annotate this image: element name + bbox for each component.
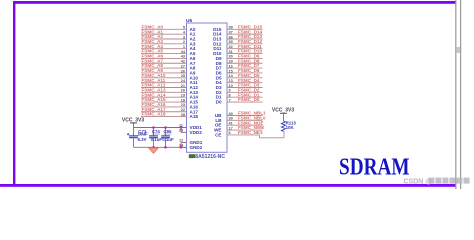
svg-text:CE: CE (215, 132, 221, 137)
junction dot (152, 146, 155, 149)
wire net FSMC_D1 (227, 96, 263, 98)
wire net FSMC_D6 (227, 72, 263, 74)
svg-text:42: 42 (181, 60, 185, 64)
sheet edge line 2 (460, 0, 461, 189)
wire net FSMC_D4 (227, 82, 263, 84)
svg-text:9: 9 (229, 89, 231, 93)
polarity mark C73 (127, 133, 129, 135)
svg-text:23: 23 (181, 103, 185, 107)
border frame top (13, 1, 456, 4)
svg-text:0.1uF: 0.1uF (162, 137, 174, 142)
junction dot (152, 126, 155, 129)
wire VDD vertical join (180, 128, 182, 133)
wire net FSMC_D13 (227, 38, 263, 40)
svg-text:8: 8 (229, 94, 231, 98)
wire net FSMC_D12 (227, 43, 263, 45)
power bar right (280, 112, 287, 114)
svg-text:31: 31 (229, 50, 233, 54)
svg-text:19: 19 (181, 94, 185, 98)
watermark glyph (450, 178, 456, 184)
wire GND1 stub (181, 141, 187, 143)
svg-text:36: 36 (229, 35, 233, 39)
wire VDD2 stub (181, 131, 187, 133)
svg-text:26: 26 (181, 69, 185, 73)
IC U6 SRAM body (187, 23, 228, 152)
svg-text:20: 20 (181, 89, 185, 93)
svg-text:1: 1 (183, 45, 185, 49)
svg-text:C86: C86 (163, 129, 172, 134)
wire net FSMC_NBL0 (227, 119, 263, 121)
svg-text:10K: 10K (286, 125, 295, 130)
svg-text:C74: C74 (152, 129, 161, 134)
wire net FSMC_A8 (141, 67, 187, 69)
svg-text:37: 37 (229, 30, 233, 34)
svg-text:A18: A18 (190, 114, 199, 119)
wire net FSMC_D15 (227, 28, 263, 30)
svg-text:VCC_3V3: VCC_3V3 (272, 108, 294, 114)
wire net FSMC_A17 (141, 111, 187, 113)
wire net FSMC_D11 (227, 48, 263, 50)
sheet edge line 1 (455, 0, 456, 189)
svg-text:21: 21 (181, 84, 185, 88)
border frame left (13, 1, 15, 186)
wire net FSMC_A6 (141, 57, 187, 59)
wire FSMC_NE3 to pull-up (260, 137, 285, 139)
svg-text:35: 35 (229, 40, 233, 44)
junction dot (180, 126, 183, 129)
junction dot (164, 146, 167, 149)
svg-text:16: 16 (229, 64, 233, 68)
wire net FSMC_D7 (227, 67, 263, 69)
svg-text:10: 10 (229, 84, 233, 88)
watermark glyph (429, 178, 435, 184)
svg-text:0.1uF: 0.1uF (151, 137, 163, 142)
wire VCC to resistor (283, 114, 285, 121)
svg-text:6.3V: 6.3V (138, 137, 147, 142)
wire net FSMC_A15 (141, 101, 187, 103)
svg-text:30: 30 (229, 55, 233, 59)
svg-text:3: 3 (183, 35, 185, 39)
part number highlight box (189, 154, 195, 158)
wire net FSMC_NE3 (227, 134, 260, 136)
svg-text:22: 22 (181, 108, 185, 112)
wire VCC rail (134, 127, 187, 129)
ground symbol (149, 148, 158, 153)
wire net FSMC_NBL1 (227, 115, 263, 117)
wire net FSMC_A1 (141, 33, 187, 35)
wire net FSMC_A11 (141, 82, 187, 84)
wire net FSMC_D5 (227, 77, 263, 79)
svg-text:28: 28 (181, 113, 185, 117)
svg-text:38: 38 (229, 26, 233, 30)
svg-text:U6: U6 (186, 18, 192, 24)
svg-text:D0: D0 (216, 100, 222, 105)
wire net FSMC_A10 (141, 77, 187, 79)
watermark glyph (436, 178, 442, 184)
svg-text:25: 25 (181, 74, 185, 78)
wire GND2 stub (181, 146, 187, 148)
wire net FSMC_A4 (141, 48, 187, 50)
wire net FSMC_D8 (227, 62, 263, 64)
wire net FSMC_NWE (227, 129, 263, 131)
svg-text:SDRAM: SDRAM (339, 153, 410, 180)
capacitor C73 (133, 128, 135, 136)
wire net FSMC_A7 (141, 62, 187, 64)
wire VDD1 stub (181, 127, 187, 129)
wire GND rail (134, 146, 187, 148)
svg-text:VCC_3V3: VCC_3V3 (122, 117, 144, 123)
wire net FSMC_A14 (141, 96, 187, 98)
capacitor C74 (153, 128, 155, 136)
border frame bottom (0, 184, 456, 187)
svg-text:2: 2 (183, 40, 185, 44)
watermark glyph (464, 178, 470, 184)
wire net FSMC_D9 (227, 57, 263, 59)
wire net FSMC_A5 (141, 53, 187, 55)
svg-text:18: 18 (181, 98, 185, 102)
svg-text:10uF: 10uF (138, 132, 149, 137)
svg-text:27: 27 (181, 64, 185, 68)
svg-text:GND2: GND2 (190, 145, 203, 150)
svg-text:FSMC_D0: FSMC_D0 (238, 97, 260, 102)
svg-text:8A51216-NC: 8A51216-NC (195, 154, 225, 160)
svg-text:FSMC_NE3: FSMC_NE3 (238, 130, 263, 135)
wire net FSMC_A16 (141, 106, 187, 108)
svg-text:29: 29 (229, 60, 233, 64)
watermark glyph (457, 178, 463, 184)
wire GND vertical join (180, 142, 182, 147)
svg-text:VDD2: VDD2 (190, 130, 203, 135)
svg-text:32: 32 (229, 45, 233, 49)
wire net FSMC_A3 (141, 43, 187, 45)
capacitor C86 (165, 128, 167, 136)
wire net FSMC_NOE (227, 124, 263, 126)
junction dot (180, 146, 183, 149)
wire net FSMC_D2 (227, 91, 263, 93)
resistor R113 (282, 121, 286, 131)
wire net FSMC_D0 (227, 101, 263, 103)
scrollbar tick (456, 47, 460, 53)
svg-text:13: 13 (229, 79, 233, 83)
watermark glyph (443, 178, 449, 184)
wire net FSMC_D3 (227, 87, 263, 89)
svg-text:FSMC_A18: FSMC_A18 (142, 112, 166, 117)
svg-text:5: 5 (183, 26, 185, 30)
wire net FSMC_D10 (227, 53, 263, 55)
junction dot (164, 126, 167, 129)
svg-text:CSDN @: CSDN @ (404, 179, 433, 186)
svg-text:15: 15 (229, 69, 233, 73)
svg-text:43: 43 (181, 55, 185, 59)
wire VCC drop (133, 123, 135, 127)
wire net FSMC_A0 (141, 28, 187, 30)
wire net FSMC_A2 (141, 38, 187, 40)
power bar left (130, 122, 137, 124)
wire net FSMC_A9 (141, 72, 187, 74)
wire net FSMC_D14 (227, 33, 263, 35)
wire net FSMC_A13 (141, 91, 187, 93)
wire pull-up vertical (283, 131, 285, 138)
wire FSMC_NE3 jog down (259, 135, 261, 138)
wire net FSMC_A18 (141, 116, 187, 118)
svg-text:7: 7 (229, 98, 231, 102)
wire net FSMC_A12 (141, 87, 187, 89)
